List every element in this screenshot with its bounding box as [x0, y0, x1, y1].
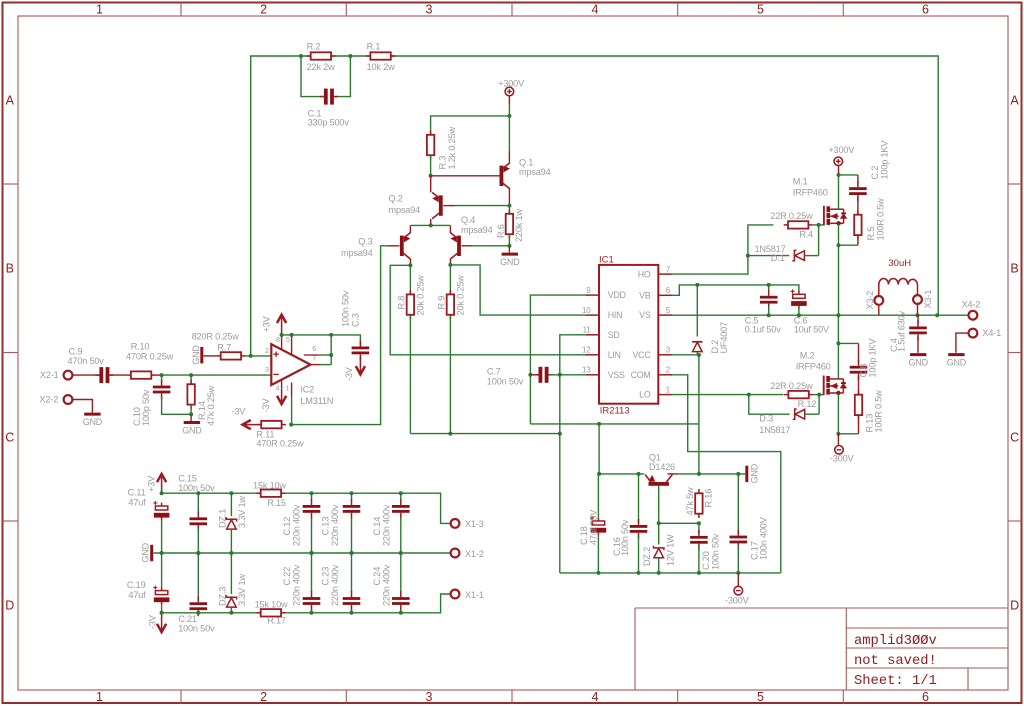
junction node D1 left	[746, 254, 750, 258]
svg-text:mpsa94: mpsa94	[341, 248, 373, 258]
wire C8 top lead	[858, 343, 860, 361]
svg-text:100n 50v: 100n 50v	[341, 290, 351, 327]
svg-text:220n 400v: 220n 400v	[382, 564, 392, 606]
junction node C18 bottom	[596, 571, 600, 575]
wire base to R16 link	[659, 522, 699, 524]
wire D1 right lead	[804, 255, 818, 257]
svg-text:X3-1: X3-1	[923, 290, 933, 309]
junction node C6/VS	[797, 313, 801, 317]
wire Q4 base wire	[472, 245, 509, 247]
junction node Q4c/R9	[448, 263, 452, 267]
junction node Q3c/R8	[408, 263, 412, 267]
svg-text:COM: COM	[631, 370, 651, 380]
junction node M2 source/R13	[836, 432, 840, 436]
svg-text:B: B	[6, 262, 14, 276]
svg-text:X1-3: X1-3	[465, 519, 484, 529]
polarized capacitor C6	[791, 289, 807, 309]
wire R7 to pin2	[245, 355, 271, 357]
wire R3 bottom	[430, 155, 432, 176]
svg-text:X4-1: X4-1	[982, 328, 1001, 338]
wire SD wire	[560, 335, 586, 573]
junction node VDD feed	[597, 422, 601, 426]
supply arrow +3V bank	[157, 474, 166, 494]
wire bank bottom rail	[162, 594, 451, 613]
junction node C17 top	[736, 472, 740, 476]
polarized capacitor C19	[153, 586, 169, 606]
wire C4 lead	[917, 315, 919, 324]
wire +300V pin (M1)	[838, 166, 840, 175]
resistor R9	[447, 290, 454, 319]
wire X3-1 stem	[917, 304, 919, 315]
title block	[635, 608, 1008, 690]
wire C7 to VSS pin	[549, 374, 586, 376]
wire C20 bottom lead	[698, 546, 700, 573]
junction node C.14 top	[399, 491, 403, 495]
junction node R14 top	[189, 373, 193, 377]
svg-text:5: 5	[757, 3, 764, 17]
resistor R13	[855, 390, 862, 419]
svg-text:20k 0.25w: 20k 0.25w	[416, 275, 426, 316]
svg-text:15k 10w: 15k 10w	[253, 480, 286, 490]
svg-text:47uf: 47uf	[128, 498, 146, 508]
wire D1 riser	[818, 225, 820, 256]
ground GND (below R14)	[182, 423, 202, 436]
wire Q4 base pin	[461, 245, 472, 247]
wire Q1 collector pin	[508, 189, 510, 206]
capacitor C.23 (220n 400v)	[343, 591, 361, 611]
svg-text:A: A	[1010, 94, 1019, 108]
wire Q4c to HIN	[450, 265, 585, 315]
wire X2-2 to GND	[73, 400, 93, 413]
svg-text:11: 11	[583, 326, 592, 335]
connector pad X4-1	[969, 329, 978, 338]
svg-text:7: 7	[666, 266, 671, 275]
capacitor C20	[690, 530, 708, 550]
junction node C18/rail	[597, 472, 601, 476]
wire VDD wire	[530, 295, 585, 424]
svg-text:470R 0.25w: 470R 0.25w	[256, 438, 304, 448]
ground GND (below R6)	[500, 254, 520, 267]
resistor R17	[256, 609, 285, 616]
svg-text:100n 50v: 100n 50v	[178, 623, 215, 633]
junction node C5/VS	[767, 313, 771, 317]
wire Q2 emitter pin	[430, 176, 432, 193]
wire M2 source down	[837, 393, 839, 434]
svg-text:IC1: IC1	[599, 255, 614, 266]
svg-text:13: 13	[582, 366, 591, 375]
supply symbol -300V (regulator)	[734, 586, 743, 595]
junction node R16 bottom/C20	[697, 521, 701, 525]
svg-text:R.12: R.12	[798, 399, 817, 409]
resistor R3	[427, 131, 434, 160]
junction node C20 bottom	[697, 571, 701, 575]
wire C.24 top lead	[400, 553, 402, 593]
junction node R2/R1	[348, 54, 352, 58]
junction node DZ3 bottom	[229, 611, 233, 615]
svg-text:R.10: R.10	[131, 342, 150, 352]
svg-text:+300V: +300V	[828, 145, 855, 155]
wire C1 branch left	[301, 56, 324, 97]
junction node M1 source/R5	[837, 243, 841, 247]
svg-text:3: 3	[666, 346, 671, 355]
svg-text:R.17: R.17	[267, 616, 286, 626]
svg-text:220n 400v: 220n 400v	[382, 504, 392, 546]
junction node C17 bottom	[736, 571, 740, 575]
wire VB wire	[672, 285, 799, 295]
svg-text:GND: GND	[141, 542, 151, 562]
wire C19 top lead	[161, 553, 163, 587]
supply symbol +300V (M1)	[834, 157, 843, 166]
svg-text:2: 2	[666, 366, 671, 375]
junction node C.22 top	[310, 551, 314, 555]
capacitor C4	[909, 320, 927, 340]
ground GND (bank mid)	[141, 542, 152, 562]
wire Q2 base pin	[443, 205, 455, 207]
wire C8 to R13	[858, 376, 860, 395]
junction node VSS column	[558, 373, 562, 377]
svg-text:6: 6	[922, 3, 929, 17]
wire VS wire	[672, 314, 968, 316]
junction node Q1 base/R16	[657, 521, 661, 525]
wire C5 bottom lead	[768, 306, 770, 315]
svg-text:HO: HO	[638, 269, 651, 279]
junction node R6 bottom	[507, 244, 511, 248]
junction node C21 bottom	[196, 611, 200, 615]
svg-text:220k 1w: 220k 1w	[514, 209, 524, 242]
svg-text:DZ.3: DZ.3	[217, 587, 227, 606]
junction node M1 gate/D1	[817, 223, 821, 227]
svg-text:IR2113: IR2113	[600, 406, 630, 417]
wire C.23 top lead	[351, 553, 353, 593]
svg-text:VS: VS	[639, 310, 651, 320]
wire C21 bottom lead	[197, 612, 199, 614]
svg-text:C: C	[1010, 431, 1019, 445]
capacitor C2	[849, 181, 867, 201]
wire C20 lead	[698, 523, 700, 533]
resistor R4 (22R)	[784, 221, 813, 228]
wire Q3 collector pin	[409, 259, 411, 266]
svg-text:C.7: C.7	[487, 367, 501, 377]
svg-text:C.24: C.24	[372, 567, 382, 586]
supply arrow +3V opamp	[277, 315, 286, 336]
wire C17 bottom lead	[737, 546, 739, 573]
resistor R12 (22R)	[784, 391, 813, 398]
transistor Q3 (mpsa94)	[400, 233, 411, 259]
capacitor C7	[535, 367, 553, 383]
wire C2 to R5	[857, 197, 859, 214]
svg-text:C.14: C.14	[372, 517, 382, 536]
resistor R11	[257, 421, 286, 428]
svg-text:DZ.2: DZ.2	[642, 547, 652, 566]
junction node C.24 top	[399, 551, 403, 555]
wire Q1 collector pin	[667, 473, 677, 475]
capacitor C10	[153, 380, 171, 400]
junction node R2 left	[299, 54, 303, 58]
junction node DZ1 top	[229, 491, 233, 495]
svg-text:1.5uf 630v: 1.5uf 630v	[897, 310, 907, 352]
supply arrow -3V C3	[356, 357, 365, 375]
capacitor C.24 (220n 400v)	[392, 591, 410, 611]
wire Q2 base wire	[455, 205, 509, 207]
svg-text:820R 0.25w: 820R 0.25w	[192, 331, 240, 341]
svg-text:100n 50v: 100n 50v	[620, 519, 630, 556]
capacitor C.14 (220n 400v)	[392, 499, 410, 519]
svg-text:B: B	[1010, 262, 1018, 276]
capacitor C21	[190, 596, 208, 616]
svg-text:100R 0.5w: 100R 0.5w	[875, 198, 885, 241]
svg-text:mpsa94: mpsa94	[389, 205, 421, 215]
svg-text:C.21: C.21	[178, 614, 197, 624]
junction node C16 bottom	[637, 571, 641, 575]
junction node C.13 bottom	[350, 551, 354, 555]
svg-text:2: 2	[260, 3, 267, 17]
wire regulator bottom rail	[560, 572, 781, 574]
junction node pin2/R7	[249, 354, 253, 358]
supply arrow -3V bank	[157, 613, 166, 633]
wire C16 top lead	[638, 474, 640, 523]
supply arrow -3V R11	[243, 420, 262, 429]
junction node X3-1/C4	[916, 313, 920, 317]
capacitor C.22 (220n 400v)	[303, 591, 321, 611]
wire pin6 drop	[330, 335, 332, 365]
wire R4 left wire	[748, 225, 774, 256]
svg-text:R.16: R.16	[703, 489, 713, 508]
svg-text:C.11: C.11	[128, 488, 146, 498]
capacitor C15	[190, 511, 208, 531]
junction node C.12 bottom	[310, 551, 314, 555]
wire C.13 bottom lead	[351, 518, 353, 554]
svg-text:5: 5	[666, 306, 671, 315]
svg-text:100n 50v: 100n 50v	[487, 376, 524, 386]
svg-text:R.4: R.4	[799, 229, 813, 239]
wire C.22 top lead	[311, 553, 313, 593]
wire R4 to gate	[813, 224, 824, 226]
svg-text:IRFP460: IRFP460	[793, 188, 828, 198]
wire C9 to R10	[109, 374, 126, 376]
ground GND (X2-2)	[83, 414, 103, 427]
svg-text:100p 1KV: 100p 1KV	[868, 338, 878, 378]
svg-text:amplid3ØØv: amplid3ØØv	[854, 633, 937, 649]
svg-text:47uf: 47uf	[128, 590, 146, 600]
svg-text:GND: GND	[908, 358, 928, 368]
transistor Q1 (mpsa94)	[500, 163, 511, 189]
junction node C21 top	[196, 551, 200, 555]
wire R5 bottom link	[839, 244, 858, 246]
wire R10 lead to node	[156, 374, 162, 376]
svg-text:DZ.1: DZ.1	[217, 509, 227, 528]
zener diode DZ.1 (3.3V 1w)	[226, 517, 236, 529]
svg-text:mpsa94: mpsa94	[461, 225, 493, 235]
junction node C7 left	[528, 373, 532, 377]
connector pad X1-3	[451, 519, 460, 528]
junction node R16 top	[697, 472, 701, 476]
connector pad X1-2	[451, 549, 460, 558]
wire C.23 bottom lead	[351, 609, 353, 613]
junction node C16/rail	[637, 472, 641, 476]
junction node C15 bottom	[196, 551, 200, 555]
svg-text:100n 50v: 100n 50v	[710, 533, 720, 570]
wire LO wire	[672, 394, 783, 396]
svg-text:R.2: R.2	[307, 42, 321, 52]
junction node R3/Q1 base/Q2 emitter	[429, 174, 433, 178]
wire pin7 link	[320, 364, 331, 366]
wire D3 riser	[818, 395, 820, 415]
capacitor C16	[630, 519, 648, 539]
svg-text:3: 3	[426, 3, 433, 17]
junction node C5 top	[767, 283, 771, 287]
svg-text:470R 0.25w: 470R 0.25w	[126, 351, 174, 361]
wire C18 bottom lead	[597, 536, 599, 573]
svg-text:220n 400v: 220n 400v	[330, 564, 340, 606]
svg-text:5: 5	[757, 690, 764, 704]
wire feedback top rail	[251, 56, 939, 356]
wire C.14 top lead	[400, 493, 402, 500]
svg-text:47uf 25V: 47uf 25V	[588, 509, 598, 545]
svg-text:not saved!: not saved!	[854, 653, 937, 669]
svg-text:47k 5w: 47k 5w	[685, 487, 695, 515]
svg-text:R.15: R.15	[267, 498, 286, 508]
junction node C.12 top	[310, 491, 314, 495]
resistor R7	[216, 352, 245, 359]
junction node +300V rail	[507, 114, 511, 118]
wire GND to R7	[203, 355, 216, 357]
svg-text:100n 50v: 100n 50v	[178, 483, 215, 493]
svg-text:10uf 50V: 10uf 50V	[794, 324, 830, 334]
svg-text:1: 1	[666, 385, 671, 394]
svg-text:-3V: -3V	[232, 406, 247, 416]
svg-text:220n 400v: 220n 400v	[292, 504, 302, 546]
svg-text:3.3V 1w: 3.3V 1w	[237, 496, 247, 528]
wire Q4 emitter pin	[449, 225, 451, 233]
wire R14 top lead	[190, 375, 192, 384]
svg-text:6: 6	[666, 286, 671, 295]
svg-text:6: 6	[922, 690, 929, 704]
junction node +300V/C2	[837, 173, 841, 177]
svg-text:+3V: +3V	[262, 315, 272, 332]
wire C.12 bottom lead	[311, 518, 313, 554]
resistor R8	[407, 290, 414, 319]
svg-text:C.15: C.15	[178, 474, 197, 484]
svg-text:22R 0.25w: 22R 0.25w	[770, 381, 813, 391]
wire C.24 bottom lead	[400, 609, 402, 613]
wire C4 to GND	[917, 337, 919, 353]
svg-text:C.9: C.9	[69, 346, 83, 356]
wire +300V pin	[508, 96, 510, 104]
wire -300V stem (regulator)	[737, 573, 739, 586]
wire C6 bottom lead	[798, 307, 800, 316]
wire Q3 emitter pin	[409, 225, 411, 233]
svg-text:6: 6	[312, 344, 316, 353]
svg-text:1.2k 0.25w: 1.2k 0.25w	[447, 127, 457, 170]
svg-text:IRFP460: IRFP460	[796, 362, 831, 372]
wire pin1 drop	[291, 396, 293, 425]
wire R14 gnd stub	[190, 414, 192, 421]
wire COM wire	[672, 375, 781, 573]
wire Q2 collector pin	[430, 219, 432, 225]
svg-text:IC2: IC2	[300, 384, 314, 394]
svg-text:D: D	[1010, 599, 1019, 613]
svg-text:C.22: C.22	[282, 567, 292, 586]
wire C11 bottom lead	[161, 521, 163, 553]
wire R5 bottom lead	[857, 235, 859, 245]
junction node pin6/C3	[329, 333, 333, 337]
svg-text:10k 2w: 10k 2w	[367, 62, 395, 72]
junction node Q2c	[429, 223, 433, 227]
wire R9 top lead	[449, 265, 451, 294]
supply symbol -300V (M2)	[835, 446, 844, 455]
svg-text:330p 500v: 330p 500v	[308, 118, 350, 128]
zener diode DZ.2 (12V 1W)	[654, 546, 664, 558]
svg-text:5: 5	[286, 335, 290, 344]
wire DZ1 bottom lead	[230, 529, 232, 553]
wire Q1 emitter pin	[508, 151, 510, 163]
svg-text:20k 0.25w: 20k 0.25w	[456, 275, 466, 316]
wire bank top rail	[162, 493, 451, 523]
svg-text:15k 10w: 15k 10w	[255, 600, 288, 610]
svg-text:100p 1KV: 100p 1KV	[879, 140, 889, 180]
junction node C.22 bottom	[310, 611, 314, 615]
capacitor C3	[352, 340, 370, 360]
wire C2 feed	[839, 174, 858, 176]
capacitor C.12 (220n 400v)	[303, 499, 321, 519]
connector pad X3-1	[913, 295, 922, 304]
IC IC1 IR2113	[585, 265, 672, 404]
svg-text:100R 0.5w: 100R 0.5w	[873, 390, 883, 433]
connector pad X2-2	[64, 395, 73, 404]
resistor R10	[127, 371, 156, 378]
resistor R14	[187, 380, 194, 409]
svg-text:1: 1	[96, 690, 103, 704]
wire opamp pin3 wire	[162, 374, 272, 376]
svg-text:UF4007: UF4007	[719, 322, 729, 354]
supply symbol +300V (Q1 rail)	[505, 87, 514, 96]
svg-text:4: 4	[592, 690, 599, 704]
wire C10 bottom route	[162, 396, 192, 415]
junction node DZ1 bottom	[229, 551, 233, 555]
wire DZ2 bottom	[658, 558, 660, 573]
wire C.22 bottom lead	[311, 609, 313, 613]
wire C15 top lead	[197, 493, 199, 513]
wire Q1 base wire	[431, 175, 500, 177]
svg-text:R.8: R.8	[396, 296, 406, 310]
svg-text:GND: GND	[191, 345, 201, 365]
svg-text:3: 3	[426, 690, 433, 704]
svg-text:D: D	[5, 599, 14, 613]
svg-text:X4-2: X4-2	[962, 299, 981, 309]
svg-text:D.1: D.1	[771, 253, 785, 263]
capacitor C9	[95, 367, 113, 383]
svg-text:Q.4: Q.4	[461, 215, 475, 225]
svg-text:+3V: +3V	[146, 475, 156, 492]
svg-text:+300V: +300V	[498, 78, 525, 88]
svg-text:Q.3: Q.3	[358, 237, 372, 247]
diode D1 (1N5817)	[792, 250, 804, 260]
svg-text:100n 400V: 100n 400V	[758, 516, 768, 560]
diode D2 (UF4007)	[692, 342, 702, 352]
resistor R16	[695, 489, 702, 518]
mosfet M2 (IRFP460)	[824, 376, 847, 396]
capacitor C8	[850, 360, 868, 380]
row labels	[5, 94, 1019, 613]
transistor Q1 (D1426)	[645, 475, 672, 486]
junction node D2 top	[695, 283, 699, 287]
wire R3 top feed	[431, 116, 510, 135]
connector pad X4-2	[969, 311, 978, 320]
polarized capacitor C18	[590, 516, 606, 536]
junction node VCC/D2	[697, 353, 701, 357]
wire DZ3 bottom lead	[230, 607, 232, 613]
junction node C15 top	[196, 491, 200, 495]
